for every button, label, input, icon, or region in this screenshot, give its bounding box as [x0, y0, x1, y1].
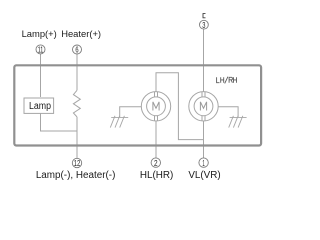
wire lamp bottom to heater net — [41, 113, 78, 131]
motor M left (HL/HR) — [141, 92, 170, 121]
pin 1 — [199, 158, 208, 167]
wire right motor to right ground — [218, 107, 238, 118]
svg-text:Lamp(+): Lamp(+) — [22, 28, 57, 39]
svg-text:Lamp(-), Heater(-): Lamp(-), Heater(-) — [36, 170, 116, 181]
label C — [203, 14, 206, 18]
wire pin3 C to right motor — [203, 29, 205, 91]
svg-text:Lamp: Lamp — [29, 101, 51, 112]
svg-text:1: 1 — [202, 158, 205, 168]
wire pin6 to heater resistor — [76, 54, 78, 90]
wire right motor bottom to pin1 — [203, 121, 205, 158]
pin 11 — [36, 45, 45, 54]
svg-text:2: 2 — [154, 158, 158, 168]
pin 2 — [151, 158, 160, 167]
wire pin11 to lamp — [40, 54, 42, 97]
wire left motor bottom to pin2 — [155, 121, 157, 158]
svg-text:12: 12 — [74, 158, 81, 168]
resistor heater element — [73, 90, 80, 117]
ground left — [110, 116, 128, 128]
label LH/RH — [217, 77, 237, 84]
main box (actuator outline) — [14, 65, 261, 145]
svg-text:3: 3 — [202, 20, 205, 30]
wire left motor top to VL net bracket — [156, 73, 204, 140]
svg-text:11: 11 — [38, 45, 44, 55]
wire heater bottom to pin12 — [76, 117, 78, 158]
pin 6 — [73, 45, 82, 54]
svg-text:VL(VR): VL(VR) — [188, 170, 220, 181]
svg-text:6: 6 — [75, 45, 78, 55]
pin 12 — [72, 158, 81, 167]
motor M right (VL/VR) — [189, 92, 218, 121]
svg-text:Heater(+): Heater(+) — [61, 28, 101, 39]
svg-text:HL(HR): HL(HR) — [140, 170, 173, 181]
pin 3 — [200, 20, 209, 29]
lamp box — [24, 98, 54, 113]
wire left motor to left ground — [120, 107, 142, 118]
ground right — [229, 116, 247, 128]
